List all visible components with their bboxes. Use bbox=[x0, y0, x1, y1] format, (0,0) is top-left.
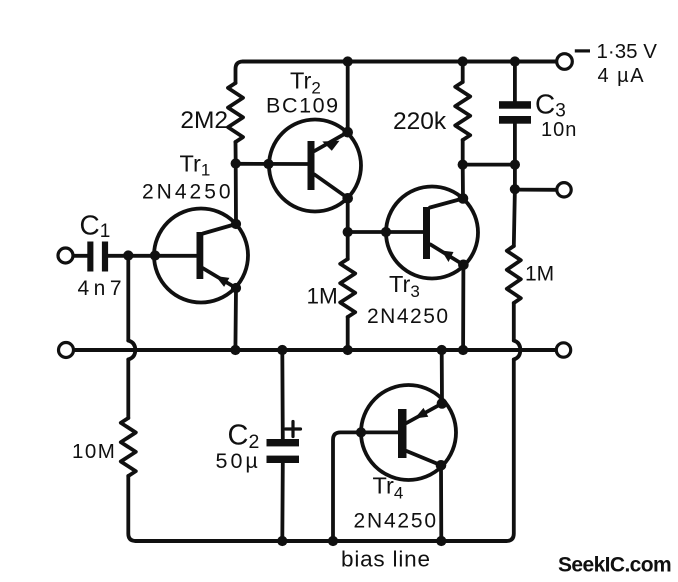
svg-text:Tr4: Tr4 bbox=[373, 473, 404, 503]
transistor Tr3 base bar bbox=[423, 207, 430, 259]
wire 10M bottom to bias rail corner bbox=[128, 476, 136, 541]
transistor Tr2 base bar bbox=[308, 141, 315, 190]
transistor Tr1 emitter lead bbox=[203, 268, 237, 288]
transistor Tr1 emitter arrow (PNP) bbox=[216, 276, 230, 287]
svg-text:C2: C2 bbox=[228, 420, 260, 454]
wire bias line rail bbox=[136, 539, 507, 543]
node top rail / 220k bbox=[458, 56, 468, 66]
svg-text:2M2: 2M2 bbox=[180, 107, 228, 134]
capacitor C1 plates bbox=[87, 242, 108, 272]
svg-text:4 µA: 4 µA bbox=[598, 65, 646, 87]
node input / 10M tee bbox=[123, 250, 133, 260]
transistor Tr4 circle bbox=[361, 385, 456, 480]
node bias rail / C2 bbox=[277, 536, 287, 546]
wire output tap down to 1M right bbox=[514, 189, 515, 246]
terminal top right (-1.35V) bbox=[557, 54, 573, 70]
minus sign of supply label bbox=[575, 49, 590, 52]
node Tr2 base circle-edge bbox=[263, 159, 273, 169]
wire Tr1 emitter down to mid rail bbox=[233, 288, 237, 350]
node output tap bbox=[510, 184, 520, 194]
wire C3 bottom to node bbox=[513, 124, 517, 165]
terminal input (left, C1) bbox=[58, 248, 73, 263]
svg-text:10n: 10n bbox=[541, 119, 577, 141]
transistor Tr4 emitter lead bbox=[407, 404, 443, 424]
node Tr4 emitter junction bbox=[437, 398, 448, 409]
transistor Tr2 emitter arrow (NPN) bbox=[322, 141, 339, 151]
terminal mid rail right bbox=[556, 343, 570, 357]
node mid rail / C2 bbox=[277, 345, 287, 355]
wire Tr3 base from node bbox=[348, 230, 423, 234]
wire C1 to Tr1 base bbox=[108, 254, 197, 258]
transistor Tr3 emitter lead bbox=[431, 245, 464, 265]
wire 1M right to bias rail corner bbox=[506, 360, 514, 542]
transistor Tr3 circle bbox=[386, 187, 478, 279]
node Tr3 base tee bbox=[343, 227, 353, 237]
wire top supply rail bbox=[243, 60, 557, 64]
transistor Tr3 emitter arrow (PNP) bbox=[442, 251, 454, 263]
node Tr4 collector junction bbox=[436, 460, 447, 471]
wire mid rail drop to C2 bbox=[280, 350, 284, 439]
wire output tap to terminal bbox=[515, 188, 557, 192]
transistor Tr2 circle bbox=[269, 120, 361, 212]
svg-text:50µ: 50µ bbox=[216, 449, 261, 473]
wire hop over mid rail (no connection) bbox=[128, 341, 135, 360]
svg-text:C3: C3 bbox=[535, 89, 566, 122]
node Tr4 base circle-edge bbox=[356, 427, 366, 437]
node Tr1 base circle-edge bbox=[150, 250, 160, 260]
svg-text:1M: 1M bbox=[307, 284, 338, 309]
svg-text:BC109: BC109 bbox=[266, 94, 340, 118]
wire 1M bottom to mid rail bbox=[346, 317, 350, 350]
resistor R3 220k bbox=[455, 82, 470, 140]
svg-text:2N4250: 2N4250 bbox=[354, 510, 438, 533]
svg-text:10M: 10M bbox=[72, 440, 116, 463]
resistor R4 1M (right) bbox=[507, 246, 521, 303]
svg-text:2N4250: 2N4250 bbox=[367, 305, 450, 328]
transistor Tr4 base bar bbox=[398, 409, 407, 458]
terminal mid rail left bbox=[59, 343, 74, 358]
node Tr1 emitter bbox=[231, 283, 241, 293]
wire node 220k/C3 junction link bbox=[463, 163, 515, 167]
node Tr1 collector bbox=[231, 219, 241, 229]
svg-text:1M: 1M bbox=[525, 262, 554, 285]
wire Tr3 emitter down to mid rail bbox=[461, 265, 465, 350]
wire hop to 10M resistor bbox=[126, 360, 130, 419]
wire Tr2 collector down to Tr3 base node bbox=[346, 198, 350, 259]
node C3 bottom junction bbox=[510, 160, 520, 170]
capacitor C2 plates bbox=[267, 439, 300, 463]
wire C2 bottom to bias rail bbox=[280, 463, 284, 541]
capacitor C3 plates bbox=[499, 101, 531, 124]
wire hop over mid rail (no connection) bbox=[514, 341, 521, 360]
wire Tr4 collector to bias rail bbox=[439, 465, 443, 541]
wire 1M right bottom to hop over mid rail bbox=[512, 303, 516, 341]
svg-text:bias line: bias line bbox=[341, 547, 431, 572]
transistor Tr1 base bar bbox=[197, 232, 204, 279]
wire top rail drop to Tr2 emitter bbox=[346, 62, 350, 133]
wire Tr2 base from node bbox=[236, 162, 308, 166]
wire 2M2 bottom to Tr1 collector node bbox=[234, 142, 238, 224]
wire C3 node down to output tap bbox=[513, 165, 517, 190]
transistor Tr1 collector lead bbox=[203, 224, 236, 234]
resistor R5 10M bbox=[121, 418, 136, 476]
svg-text:C1: C1 bbox=[80, 210, 111, 243]
svg-text:SeekIC.com: SeekIC.com bbox=[558, 554, 671, 577]
wire top rail drop to 220k bbox=[461, 62, 465, 83]
node Tr3 base circle-edge bbox=[381, 227, 391, 237]
svg-text:Tr1: Tr1 bbox=[180, 150, 211, 179]
transistor Tr3 collector lead bbox=[430, 199, 463, 208]
node 2M2 / Tr1 collector / Tr2 base bbox=[231, 158, 241, 168]
svg-text:1·35 V: 1·35 V bbox=[597, 40, 658, 63]
wire mid rail drop to Tr4 emitter bbox=[440, 350, 444, 404]
node Tr3 emitter bbox=[458, 260, 469, 271]
wire top-left corner into 2M2 bbox=[236, 62, 244, 84]
transistor Tr2 emitter lead bbox=[315, 132, 348, 151]
C2 plus sign bbox=[286, 422, 301, 437]
wire 10M drop from input node bbox=[126, 256, 130, 341]
resistor R2 1M (left) bbox=[340, 259, 355, 317]
node mid rail / Tr1 emitter bbox=[230, 345, 240, 355]
svg-text:220k: 220k bbox=[393, 108, 447, 135]
node mid rail / 1M left bbox=[343, 345, 353, 355]
svg-text:4n7: 4n7 bbox=[78, 277, 127, 300]
node bias rail / Tr4 base bbox=[328, 536, 338, 546]
transistor Tr1 circle bbox=[154, 209, 248, 303]
transistor Tr4 emitter arrow (PNP) bbox=[415, 408, 429, 419]
node mid rail / Tr4 emitter bbox=[437, 345, 447, 355]
node Tr3 collector bbox=[458, 193, 469, 204]
wire Tr4 base to bias rail bbox=[333, 432, 398, 541]
resistor R1 2M2 bbox=[228, 83, 243, 142]
wire input to C1 bbox=[73, 254, 88, 258]
wire 220k bottom to node and Tr3 collector bbox=[461, 140, 465, 199]
wire mid rail bbox=[74, 348, 557, 352]
node 220k / C3 junction bbox=[458, 160, 468, 170]
svg-text:2N4250: 2N4250 bbox=[142, 180, 234, 203]
node Tr2 emitter junction bbox=[342, 127, 353, 138]
transistor Tr2 collector lead bbox=[315, 175, 348, 199]
terminal output (right, mid) bbox=[557, 183, 571, 197]
node mid rail / Tr3 emitter bbox=[458, 345, 468, 355]
node top rail / Tr2 emitter bbox=[343, 56, 353, 66]
node Tr2 collector junction bbox=[342, 193, 353, 204]
node top rail / C3 bbox=[510, 56, 520, 66]
wire top rail drop to C3 bbox=[513, 62, 517, 102]
transistor Tr4 collector lead bbox=[407, 451, 442, 465]
node bias rail / Tr4 collector bbox=[436, 536, 446, 546]
